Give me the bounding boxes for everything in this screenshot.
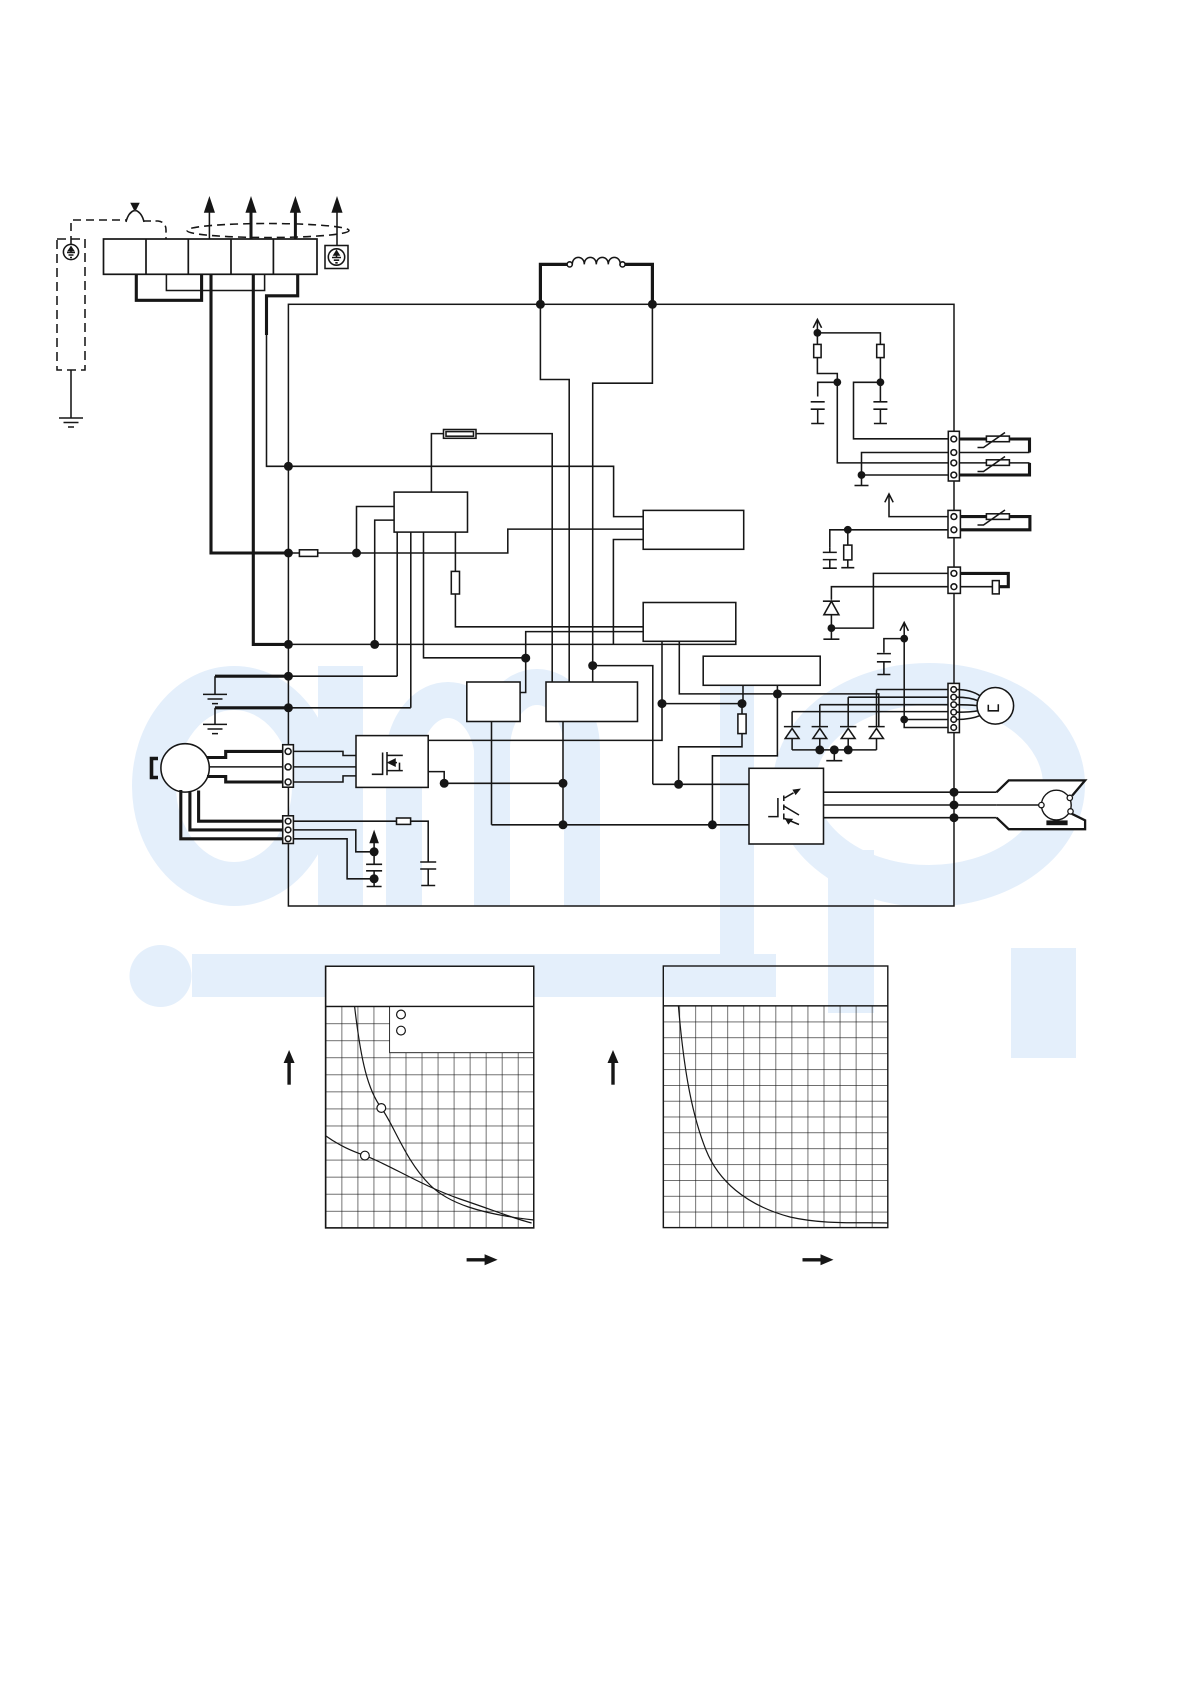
pressure switch loop xyxy=(960,573,1008,593)
ground stub CN-TH1 xyxy=(855,475,869,486)
wire triac gate xyxy=(593,666,653,785)
wire CN4 pin1 left xyxy=(831,573,948,628)
connector CN4 xyxy=(948,567,960,593)
resistor R3 xyxy=(451,532,643,627)
capacitor C6 xyxy=(823,547,837,568)
node 563 xyxy=(559,820,568,829)
wire U1 lead b xyxy=(410,532,412,708)
wire K1 drop xyxy=(491,722,493,825)
wire K2 drop xyxy=(562,722,564,825)
resistor R4 xyxy=(679,704,747,785)
node 374 cross xyxy=(370,640,379,649)
curve marker 1 xyxy=(377,1104,386,1113)
resistor R2 xyxy=(288,550,356,557)
wire U1 left feed xyxy=(375,520,394,644)
wire R6 to pin3 xyxy=(837,382,948,463)
wire net825 to triac xyxy=(492,824,750,826)
arrow Vcc1 xyxy=(813,320,821,333)
triac box Q2 xyxy=(749,768,824,844)
wire pin4 from D1 xyxy=(792,711,948,713)
node K2 drop tap xyxy=(559,779,568,788)
resistor R5 xyxy=(293,818,428,862)
node left-edge 676 xyxy=(284,672,293,681)
node C1 bottom xyxy=(370,874,379,883)
wire motor U xyxy=(207,751,283,757)
arrow terminal 5 xyxy=(294,212,297,239)
wire U3 lead2 to dotD xyxy=(679,641,777,694)
connector CN5 xyxy=(948,683,959,732)
arrow ground screw xyxy=(336,212,338,246)
wire CN1 to Q1 w xyxy=(293,776,356,782)
wire Q1 out to K2 drop xyxy=(444,782,563,784)
wire jumper t2-t4 xyxy=(166,274,264,290)
wire pin1 from D4 xyxy=(877,689,949,691)
node 662 xyxy=(658,699,667,708)
node Vcc1 xyxy=(814,329,822,337)
zener D5 xyxy=(823,599,840,628)
wire CN1 to Q1 v xyxy=(293,766,356,768)
capacitor C4 xyxy=(873,382,887,423)
legend circle 2 xyxy=(397,1026,406,1035)
node triac gate tap xyxy=(588,661,597,670)
wire V3 vertical xyxy=(904,639,948,728)
wire dashed to terminal 2 xyxy=(144,221,166,239)
node zener bottom xyxy=(828,624,836,632)
left chart y-axis arrow xyxy=(284,1050,295,1085)
node 743 base xyxy=(742,703,744,705)
wire CN1 to Q1 u xyxy=(293,751,356,755)
curve upper xyxy=(355,1006,534,1220)
ground stub zener xyxy=(823,628,839,639)
node comp V xyxy=(950,801,959,810)
motor bracket xyxy=(152,759,159,778)
stepper motor M2 xyxy=(977,688,1014,725)
resistor R8 xyxy=(841,530,854,568)
ground G2 xyxy=(203,708,227,734)
IC box U3 xyxy=(643,603,736,642)
wire motor tach b xyxy=(190,792,283,830)
wire motor tach c xyxy=(181,790,283,839)
main control PCB outline xyxy=(288,304,954,906)
connector CN1 xyxy=(283,745,294,788)
dashed unit enclosure xyxy=(57,239,85,370)
wire dotD branch down xyxy=(712,694,777,825)
wire pin2 from D3 xyxy=(848,696,948,698)
antenna split symbol xyxy=(126,211,144,223)
wire t5 feed xyxy=(267,274,298,335)
wire CN2 b xyxy=(293,830,374,852)
capacitor C2 xyxy=(420,862,436,886)
node comp U xyxy=(950,788,959,797)
wire triac out W xyxy=(824,817,997,819)
arrow terminal 4 xyxy=(250,212,253,239)
arrow terminal 3 xyxy=(208,212,210,239)
diode D4 xyxy=(868,690,884,750)
IC box U1 xyxy=(394,492,467,532)
wire gate into triac xyxy=(653,783,749,785)
curve lower xyxy=(326,1136,532,1223)
watermark xyxy=(130,666,1077,1058)
right chart xyxy=(608,966,888,1265)
wire U4 lead to dotD xyxy=(776,685,778,694)
fuse F1 xyxy=(444,430,477,439)
connector CN3 xyxy=(948,510,960,537)
left chart x-axis arrow xyxy=(467,1254,498,1265)
wire dashed antenna xyxy=(71,220,126,244)
wire U1 lead a xyxy=(396,532,398,676)
wire motor tach a xyxy=(199,791,283,822)
fan motor M1 xyxy=(161,744,209,792)
node R6 bottom xyxy=(833,378,841,386)
node gate junction xyxy=(674,780,683,789)
wire net466 to U2 xyxy=(288,466,643,516)
wire pin5 xyxy=(904,719,948,721)
thermistor TH2 xyxy=(959,457,1029,476)
node bus d2 xyxy=(815,745,824,754)
wire CN4 pin2 left xyxy=(831,587,948,600)
wire U3 lead to net740 xyxy=(428,641,662,740)
legend circle 1 xyxy=(397,1010,406,1019)
capacitor C3 xyxy=(811,382,838,424)
wire bus drop left xyxy=(540,304,569,682)
power module Q1 xyxy=(356,736,428,788)
wire triac out U xyxy=(824,791,997,793)
node V3 pin5 xyxy=(900,716,908,724)
protective earth symbol E1 xyxy=(63,244,78,259)
wire bus drop right xyxy=(593,304,653,682)
node bus-right xyxy=(648,300,657,309)
node D xyxy=(773,689,782,698)
thermistor TH1 xyxy=(959,433,1029,453)
wire motor W xyxy=(207,777,283,783)
wire pin3 from D2 xyxy=(820,704,948,706)
wire t4 feed xyxy=(253,274,288,644)
wire net644 xyxy=(288,641,735,644)
arrow V3 xyxy=(900,623,908,639)
node left-edge 708 xyxy=(284,703,293,712)
resistor R6 xyxy=(814,333,838,382)
wire t3 feed xyxy=(211,274,288,553)
node R7 bottom xyxy=(877,378,885,386)
wire ground link 2 xyxy=(215,706,288,709)
capacitor C1 xyxy=(366,852,382,887)
wire motor V xyxy=(209,766,283,768)
node left-edge 644 xyxy=(284,640,293,649)
wire triac out V xyxy=(824,804,997,806)
wire earth lead xyxy=(70,370,72,418)
node C1 top xyxy=(370,847,379,856)
wire U4 lead2 xyxy=(742,685,744,703)
wire R2 to U2 xyxy=(357,529,644,553)
arrow Vm xyxy=(370,832,377,852)
node 525 tap xyxy=(521,654,530,663)
left chart xyxy=(284,966,534,1265)
connector CN2 xyxy=(283,816,294,844)
curve marker 2 xyxy=(361,1151,370,1160)
diode D3 xyxy=(840,697,856,750)
wire U1 top lead xyxy=(431,434,443,493)
wire U2 to net644 xyxy=(613,540,643,645)
wire pin2 pin4 common xyxy=(862,453,949,476)
wire ground link 1 xyxy=(215,675,288,678)
ground G1 xyxy=(203,676,227,703)
wire Vcc1 to R7 xyxy=(817,333,880,345)
wire CN5 fan curves xyxy=(957,690,981,720)
wire 662 to resistor R4 xyxy=(662,703,742,705)
ground stub diode bus xyxy=(826,750,842,761)
wire fuse to box5 xyxy=(476,434,552,682)
node 712 xyxy=(708,820,717,829)
relay box K1 xyxy=(467,682,520,722)
wire R2 tap to U1 xyxy=(357,507,395,554)
wire U1 lead c xyxy=(424,532,526,658)
resistor R7 xyxy=(877,344,884,382)
node 848 xyxy=(844,526,852,534)
node R2 tap xyxy=(352,549,361,558)
terminal block TB1 xyxy=(104,239,318,274)
node bus d3 xyxy=(844,745,853,754)
relay box K2 xyxy=(546,682,638,722)
driver box U4 xyxy=(703,656,820,685)
node left-edge 553 xyxy=(284,549,293,558)
wire jumper t1-t3 xyxy=(136,274,201,300)
capacitor C5 xyxy=(877,639,904,675)
node comp W xyxy=(950,813,959,822)
wire Q1 output xyxy=(428,772,444,784)
node V3 xyxy=(900,635,908,643)
thermistor connector CN-TH1 xyxy=(948,431,959,481)
grounding screw symbol E2 xyxy=(325,246,348,269)
compressor COMP xyxy=(997,780,1086,829)
node 742 xyxy=(738,699,747,708)
ground G0 xyxy=(59,418,83,427)
wire diode bus xyxy=(792,749,876,751)
MOSFET symbol xyxy=(372,752,403,775)
wire dotD to diode col4 xyxy=(777,694,878,727)
diode D1 xyxy=(784,712,800,750)
wire R7 to pin1 xyxy=(854,382,949,439)
IC box U2 xyxy=(643,510,744,549)
left chart legend box xyxy=(390,1006,534,1052)
diode D2 xyxy=(812,705,828,750)
reactor L1 xyxy=(540,257,652,304)
wire U3 to relay box xyxy=(520,632,643,693)
right curve xyxy=(678,1006,887,1223)
thermistor TH3 xyxy=(960,510,1030,530)
right chart y-axis arrow xyxy=(608,1050,619,1085)
node 861 xyxy=(858,471,866,479)
triac symbol xyxy=(768,789,801,825)
arrow Vcc2 xyxy=(885,494,948,517)
node Q1 out xyxy=(440,779,449,788)
wire CN3 pin2 left xyxy=(830,530,948,547)
node bus-left xyxy=(536,300,545,309)
node bus mid xyxy=(830,745,839,754)
node left-edge 466 xyxy=(284,462,293,471)
field wiring dashed loop xyxy=(187,224,349,238)
wire CN2 c xyxy=(293,839,374,879)
right chart x-axis arrow xyxy=(803,1254,834,1265)
